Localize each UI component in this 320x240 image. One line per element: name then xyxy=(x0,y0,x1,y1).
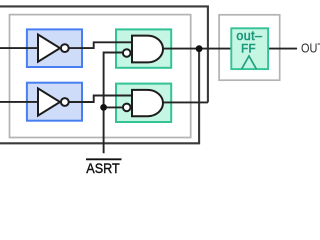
svg-text:out–: out– xyxy=(236,29,262,43)
svg-text:FF: FF xyxy=(241,43,256,55)
svg-text:ASRT: ASRT xyxy=(86,160,119,176)
svg-text:OUT: OUT xyxy=(301,40,320,55)
